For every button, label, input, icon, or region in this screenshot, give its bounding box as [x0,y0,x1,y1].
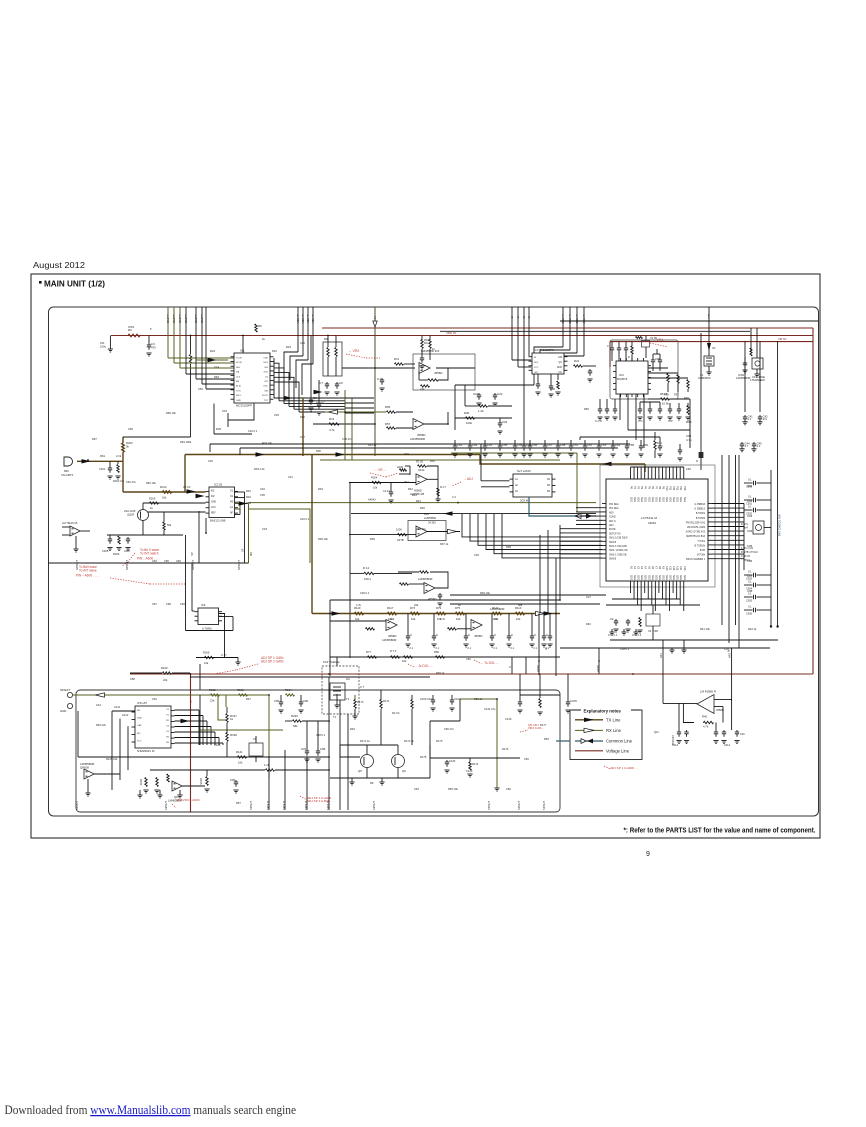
svg-text:10k: 10k [494,617,499,621]
svg-text:RX Line: RX Line [606,728,622,733]
bottom box labels sprinkle [106,705,496,761]
svg-text:SPOUT: SPOUT [75,801,79,810]
svg-text:TX Line: TX Line [606,717,621,722]
svg-text:C62: C62 [686,467,691,471]
resistor R5 cluster [255,324,262,332]
svg-text:VCC: VCC [211,507,216,509]
svg-text:ADJ SP 1 0-A000 …: ADJ SP 1 0-A000 … [610,766,638,770]
svg-text:N: N [508,666,512,668]
svg-text:R236: R236 [291,714,298,718]
svg-text:DA: DA [236,371,240,374]
svg-text:B TO6b: B TO6b [697,555,706,557]
svg-text:AFIN: AFIN [596,665,600,672]
svg-text:C63: C63 [487,443,493,447]
arrow in nest [181,719,190,723]
svg-text:C T: C T [360,685,365,689]
svg-text:C103: C103 [420,697,427,701]
svg-text:R79: R79 [436,606,442,610]
svg-text:R170: R170 [357,700,364,704]
svg-text:R5: R5 [258,324,262,328]
svg-text:C65: C65 [164,559,169,563]
svg-text:R 14: R 14 [363,566,369,570]
svg-text:10k: 10k [516,617,521,621]
svg-text:C25: C25 [474,553,479,557]
svg-text:L51: L51 [100,341,105,345]
svg-text:C29: C29 [502,420,508,424]
svg-text:0.1: 0.1 [410,647,414,650]
svg-text:R6: R6 [370,781,374,785]
caps group A below IC4 [595,399,618,423]
svg-text:9: 9 [646,851,650,858]
resistor trio right of IC4 [648,368,689,400]
svg-text:C105: C105 [570,699,577,703]
svg-text:C69: C69 [180,602,185,606]
svg-text:C66: C66 [128,427,133,431]
svg-text:SW2 B: SW2 B [609,542,617,544]
explanatory notes legend box [570,707,642,760]
svg-text:C15: C15 [222,409,228,413]
IC3 TA31136 FM IF detector [529,348,568,374]
svg-text:10k: 10k [238,761,243,765]
svg-text:CAP: CAP [137,724,142,727]
IC5 bottom pin stub [190,511,207,563]
svg-text:K14: K14 [679,566,682,571]
svg-text:… VR …: … VR … [374,468,387,472]
bottom right ground row [560,640,778,653]
svg-text:SETUP OS: SETUP OS [609,533,621,535]
svg-text:REF: REF [211,513,216,515]
wires right part bottom box [430,695,560,778]
wire bundle D top right pair [751,328,757,356]
svg-text:SEG: SEG [683,575,686,580]
IC9 bottom network [196,651,241,666]
red note to bell wave [76,565,185,584]
quartz discriminator X1 [698,351,714,380]
legend TX line sample [575,717,621,722]
svg-text:P13: P13 [676,486,679,491]
svg-text:R35 10k: R35 10k [318,537,328,541]
svg-text:SD: SD [306,314,308,317]
svg-text:C97: C97 [301,747,307,751]
labels mid strip resistors extra [356,603,523,621]
bottom wire of strip [330,558,560,676]
capacitor C3 with ground [146,336,156,357]
svg-text:SEG: SEG [658,575,661,580]
svg-text:R204: R204 [371,476,378,480]
svg-text:SEG: SEG [637,575,640,580]
svg-text:C114: C114 [724,743,731,747]
svg-text:SP/EXT: SP/EXT [60,688,70,692]
svg-text:SEG: SEG [665,575,668,580]
svg-text:10k: 10k [456,617,461,621]
battery check label [778,514,782,536]
RX main olive line [249,496,597,504]
red note to ANT switch [122,548,160,566]
svg-text:C: C [546,633,548,637]
svg-text:B TO562b: B TO562b [695,545,706,547]
svg-text:0.1: 0.1 [377,377,381,381]
svg-text:MUTE: MUTE [609,529,616,531]
svg-text:4.7: 4.7 [319,381,323,385]
svg-text:AD2: AD2 [609,524,614,527]
svg-text:SEG: SEG [654,575,657,580]
svg-text:SPOUT: SPOUT [164,801,168,810]
capacitor C6 pair under bus [308,336,317,412]
svg-text:R61: R61 [100,454,106,458]
svg-text:C66: C66 [176,559,181,563]
cluster right of IC3 [574,359,597,382]
svg-text:SEG: SEG [679,497,682,502]
red note DXL right [474,660,499,665]
capacitor C9 cluster [319,381,343,395]
svg-text:MC23150FP: MC23150FP [236,404,252,408]
svg-text:R53: R53 [544,737,549,741]
svg-text:100 k: 100 k [364,577,372,581]
svg-text:C96: C96 [747,559,753,563]
mid verticals bottom section [269,677,329,810]
cluster labels right of IC4 [686,346,716,424]
svg-text:0.1: 0.1 [748,506,752,509]
svg-text:SW6 B: SW6 B [609,559,617,561]
common line teal from IC6b [529,497,596,519]
svg-text:C97: C97 [747,574,753,578]
caps group C below IC4 [667,403,690,423]
svg-text:CA: CA [230,506,234,509]
svg-text:NJM2902V M: NJM2902V M [137,749,155,753]
svg-text:R64 100k: R64 100k [180,440,192,444]
svg-text:N: N [537,660,541,662]
upper feedback resistor R114 [350,566,412,658]
RX line from connector [73,693,269,697]
svg-text:R63: R63 [686,420,692,424]
wire bundle A (olive TX lines into IC1) [166,307,234,389]
olive wire nest segments [199,729,283,731]
svg-text:R13: R13 [329,417,335,421]
TX arrow into IC1 [196,358,228,362]
svg-text:C131 47u: C131 47u [484,707,496,711]
svg-text:C68: C68 [166,602,171,606]
svg-text:C9: C9 [339,381,343,385]
cluster mid 450-540 [455,411,532,457]
svg-text:2SA 1015: 2SA 1015 [124,509,136,513]
vertical resistors mid [226,707,237,757]
svg-text:B TO561: B TO561 [696,513,706,515]
svg-text:G 35B61S: G 35B61S [694,509,705,511]
svg-text:R206: R206 [113,552,120,556]
op-amp U5B boxed [349,516,460,542]
labels on bundle tops A [166,318,204,323]
svg-text:SEG: SEG [644,497,647,502]
svg-text:R46: R46 [424,512,429,516]
svg-text:SEG: SEG [661,497,664,502]
svg-text:R56: R56 [385,405,391,409]
staircase wires to IC7 left pins [462,514,602,558]
svg-text:C67: C67 [547,443,553,447]
svg-text:R32: R32 [246,495,251,499]
svg-text:C2 C2: C2 C2 [183,485,191,489]
svg-text:100k: 100k [466,421,473,425]
svg-text:R T 4: R T 4 [390,649,397,653]
labels on bundle tops C [561,318,586,324]
svg-text:*: Refer to the PARTS LIST for: *: Refer to the PARTS LIST for the value… [624,826,816,835]
svg-text:C18 47u: C18 47u [342,437,352,441]
svg-text:R65 10k: R65 10k [166,411,176,415]
svg-text:C: C [534,633,536,637]
svg-text:SEG: SEG [672,497,675,502]
svg-text:C2 0.1: C2 0.1 [383,490,391,493]
svg-text:R57: R57 [385,422,391,426]
svg-text:R175: R175 [420,755,427,759]
U5A output cluster [435,479,446,502]
red note bottom mid-left [300,796,335,803]
common line arrow left [603,462,612,466]
svg-text:SD: SD [311,314,313,317]
connector J3 pins [60,688,73,713]
svg-text:C22: C22 [497,392,503,396]
ceramic filter CF1 [742,340,765,382]
U5 area labels [404,480,429,516]
capacitor C4 with ground [240,336,249,382]
svg-text:COM2: COM2 [609,517,616,519]
IC4 RF PLL synthesizer [613,358,651,397]
svg-text:SCK: SCK [264,372,269,374]
svg-text:LM 78L05 05: LM 78L05 05 [62,521,78,525]
wire upper strip [330,599,560,601]
vertical drops to voltage bottom [537,614,601,675]
svg-text:C: C [607,345,609,348]
svg-text:R37: R37 [674,394,679,397]
svg-text:N: N [597,660,601,662]
left wires vertical joins [540,525,560,614]
svg-text:BA3121 06B: BA3121 06B [210,519,226,523]
svg-text:0.1: 0.1 [748,581,752,584]
svg-text:R55 10k: R55 10k [448,787,458,791]
svg-text:SEG: SEG [669,497,672,502]
svg-text:22k: 22k [163,678,168,682]
svg-text:C62 47u: C62 47u [126,480,136,484]
svg-text:C20: C20 [208,459,213,463]
mic bias resistor R203 [122,437,191,461]
svg-text:R132: R132 [209,688,216,692]
voltage line upper branch [322,327,813,329]
svg-text:Q6: Q6 [402,769,406,773]
svg-text:C: C [410,633,412,637]
IC9 loop wires [186,535,234,652]
resistors on audio path [354,606,525,621]
svg-text:SEG: SEG [644,575,647,580]
svg-text:SPOUT: SPOUT [237,560,241,570]
svg-text:R160: R160 [161,666,168,670]
svg-text:R23: R23 [286,345,291,349]
svg-text:SEG: SEG [669,575,672,580]
svg-text:LIM: LIM [558,357,562,359]
IC8 right wire nest [175,710,224,745]
svg-text:ADJ SP 2 A-B00 . . .: ADJ SP 2 A-B00 . . . [307,799,335,803]
svg-text:3k: 3k [126,445,130,449]
svg-text:22k: 22k [210,699,215,703]
svg-text:Common Line: Common Line [606,739,633,744]
TX line down to audio input [122,461,124,492]
resistor R2 on VM line [128,325,140,337]
left caps trio C205-C207 [102,535,131,556]
svg-text:R40: R40 [702,715,708,719]
svg-text:IC51: IC51 [128,325,135,329]
svg-text:R47: R47 [246,697,251,701]
op-amp U9A lower strip [330,620,397,642]
vertical R trio [139,774,169,793]
wire from nest down [228,404,254,428]
svg-text:C28 0.1: C28 0.1 [620,647,630,651]
svg-text:10k: 10k [204,661,209,665]
svg-text:C122: C122 [122,713,129,717]
svg-text:C112: C112 [672,743,679,747]
right column labels [747,484,753,593]
svg-text:R117: R117 [387,606,394,610]
svg-text:MWB/T5/LO1 B1Z: MWB/T5/LO1 B1Z [686,536,705,538]
svg-text:VCC: VCC [137,740,142,742]
svg-text:R151: R151 [139,779,143,786]
olive line into IC7 left [451,453,596,512]
svg-text:C505: C505 [746,600,753,603]
svg-text:0.1: 0.1 [468,647,472,650]
svg-text:C46: C46 [740,733,745,736]
svg-text:C60: C60 [466,657,471,661]
IC7 right pin wires [712,504,744,571]
svg-text:P10: P10 [665,486,668,491]
svg-text:SEG: SEG [640,497,643,502]
svg-text:PIN – A600 . . . .: PIN – A600 . . . . [76,574,99,578]
svg-text:SD: SD [301,314,303,317]
svg-text:SPOUT: SPOUT [487,801,491,810]
svg-text:R42 1k: R42 1k [748,627,757,631]
IC7 main microcontroller LC75341 [602,475,712,585]
decoupling row above IC7 [568,440,648,457]
svg-text:SEG: SEG [637,497,640,502]
svg-text:R34: R34 [318,487,323,491]
svg-text:C: C [468,633,470,637]
svg-text:TXD: TXD [184,318,188,323]
svg-text:CS: CS [265,376,269,378]
svg-text:K15: K15 [683,566,686,571]
vertical R near op-amp2 [199,770,210,792]
svg-text:C61: C61 [457,443,463,447]
outer sheet frame [31,274,820,838]
svg-text:SEG: SEG [647,575,650,580]
svg-text:1.2k: 1.2k [478,409,484,413]
caps pair mid 280 [274,695,309,713]
svg-text:C68: C68 [550,387,555,391]
resistor R160 on 677 [130,666,190,682]
svg-text:C24 47u: C24 47u [416,527,426,531]
svg-text:SEG: SEG [683,497,686,502]
op-amp U11 [80,762,120,796]
svg-text:R57: R57 [236,801,241,805]
svg-text:QC: QC [559,362,563,364]
svg-text:VDD: VDD [263,358,268,360]
svg-text:47u: 47u [763,417,768,421]
IC7 bottom extra grounds [609,629,638,635]
svg-text:Q5: Q5 [358,769,362,773]
svg-text:R31 1k: R31 1k [368,443,377,447]
svg-text:LM4558DR: LM4558DR [410,437,425,441]
svg-text:4558D: 4558D [474,634,482,638]
cluster under IC3 left [465,385,512,413]
red leader from ADJ note [214,664,258,674]
svg-text:SW4 / LO1B1 /AD: SW4 / LO1B1 /AD [609,549,628,552]
resistors on RX line [209,688,295,703]
svg-text:4.7k: 4.7k [703,725,709,729]
svg-text:4558D: 4558D [434,371,442,375]
svg-text:MU: MU [249,552,253,556]
svg-text:C71 0.1: C71 0.1 [608,633,618,637]
nest horizontals extension [345,398,374,413]
svg-text:VR: VR [166,742,169,744]
svg-text:C99: C99 [230,778,236,782]
wire into IC9 from bus [192,563,195,611]
svg-text:SEG: SEG [672,575,675,580]
microphone jack J2 [61,457,73,477]
svg-text:LC75341 M: LC75341 M [641,516,657,520]
svg-text:R205: R205 [149,497,156,501]
svg-text:R38: R38 [684,397,689,400]
svg-text:CN-GMTX: CN-GMTX [61,473,73,477]
svg-text:LM 4558D R: LM 4558D R [700,690,716,694]
red note Q5 adjust [520,723,545,732]
svg-text:C93: C93 [747,514,753,518]
labels at maroon start [100,336,113,353]
svg-text:AFIN: AFIN [536,665,540,672]
svg-text:TXD: TXD [178,318,182,323]
U5A input network [349,466,416,503]
op-amp U9B lower strip [448,607,505,638]
grounds under Q pair [349,778,384,785]
emitter network line [107,512,183,535]
svg-text:R36: R36 [370,537,375,541]
op-amp U10 leftward [663,690,732,714]
svg-text:X2 7.3M: X2 7.3M [648,629,658,633]
svg-text:C92: C92 [747,499,753,503]
IC4 bottom drops [620,394,690,448]
svg-text:VM: VM [189,700,191,703]
svg-text:C22 0.1: C22 0.1 [300,517,310,521]
svg-text:R69: R69 [584,407,589,411]
svg-text:R45 22k: R45 22k [96,723,106,727]
svg-text:SW5 /1 OSB/ SB: SW5 /1 OSB/ SB [609,554,627,556]
svg-text:IC8 u57: IC8 u57 [137,701,147,705]
svg-text:OUT: OUT [534,372,539,374]
wire Q1 collector to IC5 [148,511,206,513]
svg-text:QP609: QP609 [80,766,89,770]
olive line secondary [320,390,560,460]
svg-text:IC3 TA31136FN: IC3 TA31136FN [534,348,554,352]
bottom box extra grounds [137,790,182,798]
svg-text:G 35B63Z: G 35B63Z [695,504,706,506]
svg-text:GND: GND [236,400,241,402]
svg-text:C27: C27 [586,595,591,599]
svg-text:C205: C205 [102,549,109,553]
red note near IC6 [452,477,473,486]
RX secondary olive bend [249,509,311,563]
svg-text:Voltage Line: Voltage Line [606,748,630,753]
svg-text:TST: TST [264,400,269,402]
svg-text:SEG: SEG [661,575,664,580]
svg-text:CDB450C: CDB450C [698,376,711,380]
base resistor R205 [143,497,206,511]
svg-text:R67: R67 [92,437,97,441]
svg-text:C91: C91 [747,484,753,488]
svg-text:R63: R63 [214,375,219,379]
svg-text:5: 5 [150,327,152,331]
